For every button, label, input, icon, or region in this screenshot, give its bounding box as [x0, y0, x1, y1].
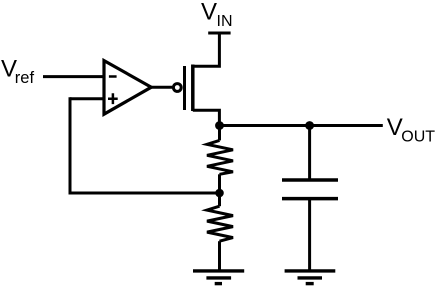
- transistor Q1 drain arm to output node: [193, 110, 220, 125]
- node Vref label: [1, 56, 34, 87]
- power VIN bar: [208, 32, 230, 35]
- transistor Q1 PMOS gate bubble: [173, 84, 181, 92]
- wire capacitor bottom lead: [308, 199, 311, 271]
- wire op-amp output to gate: [151, 86, 172, 89]
- junction capacitor tap: [305, 121, 314, 130]
- wire feedback vertical: [69, 97, 72, 193]
- transistor Q1 channel bar: [191, 65, 195, 112]
- wire op-amp non-inverting input: [70, 97, 104, 100]
- transistor Q1 source arm to VIN: [193, 32, 220, 67]
- junction output node: [215, 121, 224, 130]
- node VOUT label: [387, 114, 436, 145]
- ground GND1: [193, 271, 244, 284]
- wire Vref to op-amp inverting input: [43, 75, 104, 78]
- wire capacitor top lead: [308, 126, 311, 181]
- svg-text:V: V: [201, 0, 217, 26]
- resistor R2: [207, 193, 233, 271]
- svg-text:IN: IN: [217, 13, 233, 30]
- capacitor C1: [282, 180, 338, 199]
- svg-text:ref: ref: [15, 69, 35, 87]
- transistor Q1 gate bar: [183, 66, 186, 110]
- op-amp U1: [104, 61, 151, 115]
- wire output node to VOUT: [220, 124, 383, 127]
- junction feedback node: [215, 189, 224, 198]
- ground GND2: [285, 271, 336, 284]
- resistor R1: [207, 127, 233, 193]
- wire feedback horizontal to divider node: [69, 192, 220, 195]
- svg-text:OUT: OUT: [401, 129, 435, 146]
- node VIN label: [201, 0, 233, 30]
